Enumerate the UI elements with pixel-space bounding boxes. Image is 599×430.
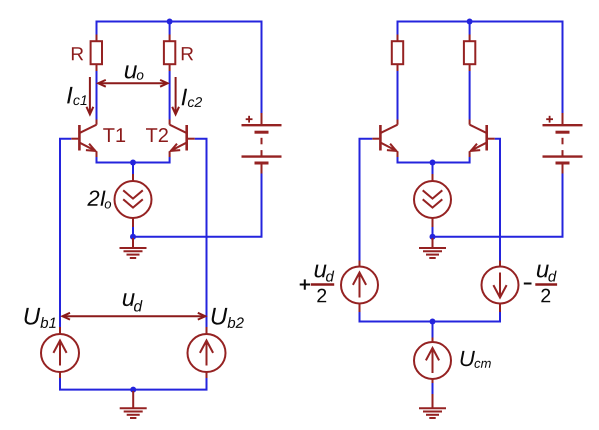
label Ub2 xyxy=(212,308,228,325)
voltage source Ub2 xyxy=(188,327,226,378)
node emitter junction right xyxy=(430,160,436,166)
wire collector T4 xyxy=(469,71,471,120)
wire collector T2 xyxy=(169,71,171,120)
label T1 xyxy=(103,128,125,142)
wire Ucm to ground xyxy=(432,383,434,394)
node ground junction left xyxy=(130,234,136,240)
wire top rail right circuit xyxy=(398,22,563,114)
wire current source to ground node xyxy=(132,218,134,227)
wire base T4 to -ud/2 source xyxy=(495,139,500,261)
wire emitter node to current source right xyxy=(432,163,434,175)
transistor T2 xyxy=(170,120,195,158)
arrow Ic1 xyxy=(87,77,94,114)
label R1 value R xyxy=(72,47,83,60)
wire R2 bottom lead xyxy=(169,65,171,72)
wire resistor R4 top stub xyxy=(469,22,471,35)
transistor T3 xyxy=(372,120,397,158)
wire R4 bottom lead xyxy=(469,65,471,72)
node collector rail junction left xyxy=(167,19,173,25)
current source 2Io xyxy=(115,181,152,218)
wire base T1 to left rail xyxy=(60,139,71,327)
label battery 1 plus xyxy=(246,116,253,123)
voltage source -ud/2 xyxy=(482,261,519,313)
label Ucm xyxy=(461,351,475,366)
wire emitter node to current source xyxy=(132,163,134,175)
resistor R1 xyxy=(91,41,102,64)
arrow Ic2 xyxy=(172,77,179,114)
arrow ud (double headed) xyxy=(63,313,206,320)
label battery 2 plus xyxy=(546,116,553,123)
voltage source +ud/2 xyxy=(341,261,378,313)
label Ic1 xyxy=(67,87,72,104)
wire R1 bottom lead xyxy=(96,65,98,72)
ground below current source right xyxy=(419,238,446,258)
transistor T1 xyxy=(71,120,96,158)
wire emitters to common node right xyxy=(398,157,470,163)
wire node to Ucm xyxy=(432,322,434,338)
wire resistor R3 top stub xyxy=(397,35,399,42)
node bottom ground junction left xyxy=(130,387,136,393)
node collector rail junction right xyxy=(467,19,473,25)
node emitter junction left xyxy=(130,160,136,166)
wire negative rail to battery 2 xyxy=(433,174,563,237)
wire R3 bottom lead xyxy=(397,65,399,72)
wire collector T1 xyxy=(96,71,98,120)
transistor T4 xyxy=(470,120,495,158)
resistor R2 xyxy=(164,41,175,64)
wire emitters to common node xyxy=(97,157,170,163)
label uo xyxy=(125,65,137,78)
wire bottom rail left circuit xyxy=(60,378,207,390)
wire sources to common node bottom right xyxy=(360,312,501,322)
wire base T2 to right rail xyxy=(195,139,207,327)
resistor R4 xyxy=(464,41,475,64)
label Ic2 xyxy=(182,89,187,106)
battery 2 xyxy=(543,113,583,174)
current source right xyxy=(414,181,451,218)
label ud xyxy=(123,293,135,306)
wire top rail left circuit xyxy=(97,22,262,114)
resistor R3 xyxy=(392,41,403,64)
voltage source Ucm xyxy=(414,342,451,383)
wire negative rail to battery 1 xyxy=(133,174,262,237)
ground bottom left xyxy=(120,391,147,418)
label +ud/2 xyxy=(300,279,310,289)
wire resistor R1 top stub xyxy=(96,35,98,42)
label -ud/2 xyxy=(524,283,532,285)
node ground junction right xyxy=(430,234,436,240)
node bottom junction right xyxy=(430,319,436,325)
label R2 value R xyxy=(182,47,193,60)
ground bottom right xyxy=(419,394,446,418)
label Ub1 xyxy=(25,308,41,325)
label 2Io xyxy=(87,190,105,205)
arrow uo (double headed) xyxy=(98,80,167,87)
wire base T3 to +ud/2 source xyxy=(360,139,373,261)
wire resistor R2 top stub xyxy=(169,22,171,35)
wire current source to ground node right xyxy=(432,218,434,227)
battery 1 xyxy=(242,113,282,174)
voltage source Ub1 xyxy=(41,327,79,378)
label T2 xyxy=(146,128,168,142)
ground below current source 1 xyxy=(120,238,147,258)
wire collector T3 xyxy=(397,71,399,120)
